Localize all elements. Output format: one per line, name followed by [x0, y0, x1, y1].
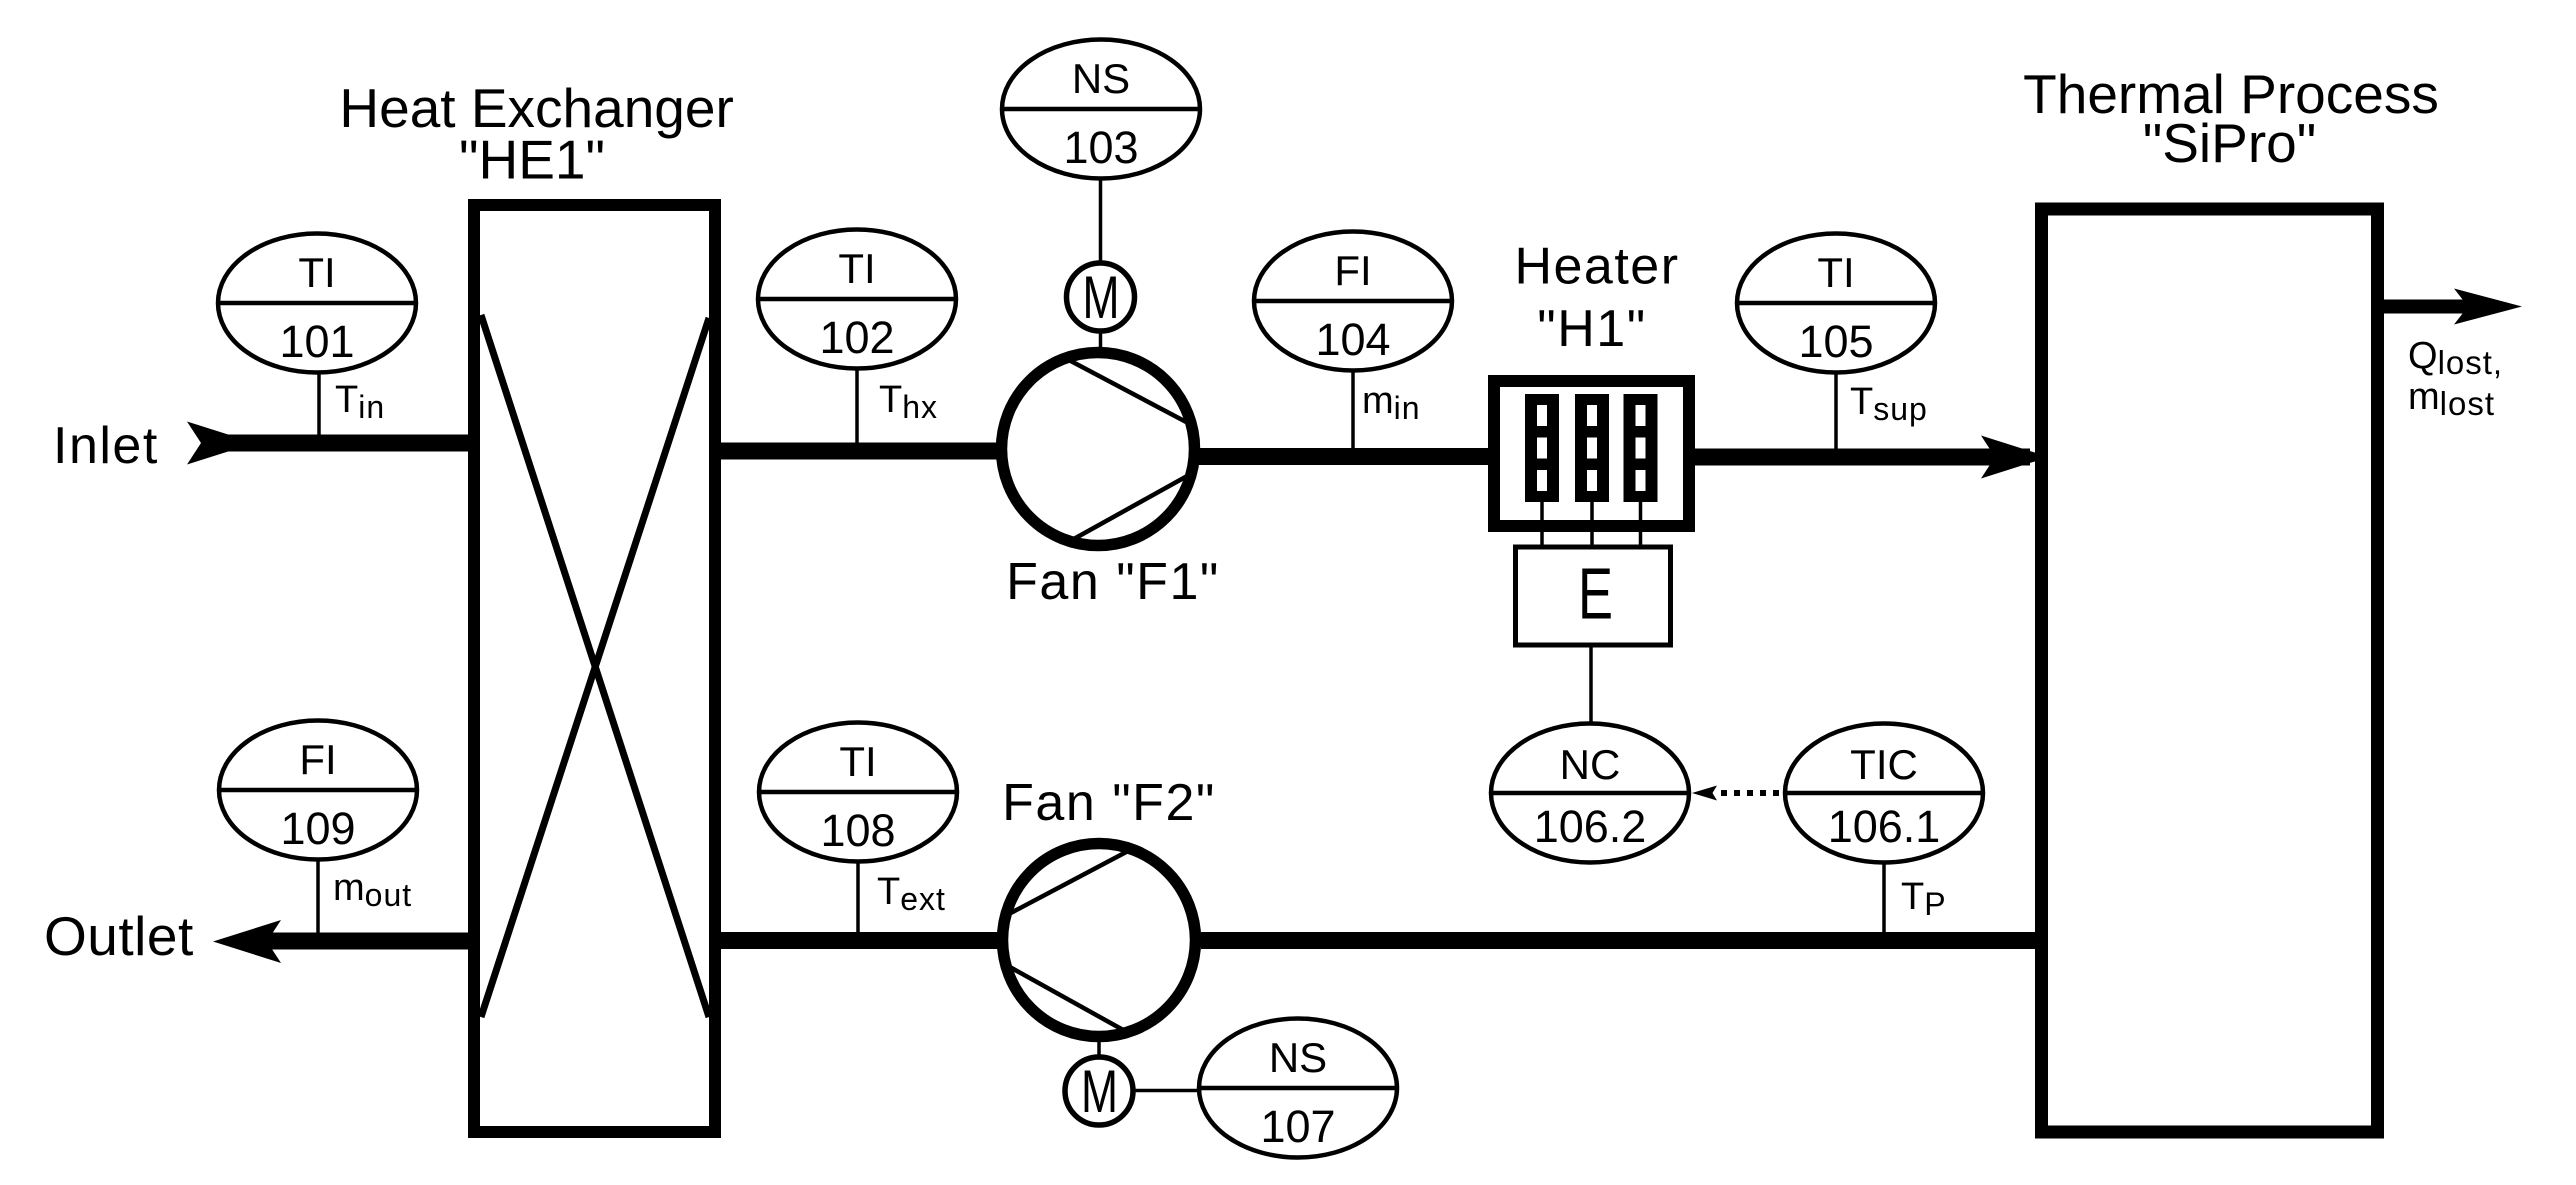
wire Thermal Process to Fan F2 (return)	[1201, 932, 2038, 949]
fan F1 blade lower	[1072, 475, 1189, 540]
wire E to NC106.2	[1589, 645, 1593, 722]
wire Fan F1 to Heater H1	[1197, 448, 1492, 465]
fan F2	[1003, 844, 1196, 1037]
heater element 2	[1575, 394, 1609, 502]
svg-text:103: 103	[1063, 122, 1138, 173]
svg-text:Fan "F1": Fan "F1"	[1006, 553, 1220, 611]
motor M2	[1065, 1057, 1133, 1125]
svg-text:105: 105	[1798, 316, 1873, 367]
svg-text:TI: TI	[838, 245, 875, 292]
wire M2 to NS107	[1133, 1089, 1199, 1093]
svg-text:106.2: 106.2	[1534, 801, 1647, 852]
svg-text:TI: TI	[1817, 249, 1854, 296]
tag line FI104	[1351, 371, 1355, 451]
instrument NC 106.2	[1491, 724, 1689, 863]
svg-text:"H1": "H1"	[1537, 300, 1646, 358]
instrument TIC 106.1	[1785, 724, 1983, 863]
svg-text:106.1: 106.1	[1828, 801, 1941, 852]
fan F1 blade upper	[1067, 359, 1190, 424]
heat exchanger diagonal 1	[481, 315, 709, 1017]
svg-text:104: 104	[1315, 314, 1390, 365]
svg-text:E: E	[1578, 555, 1613, 635]
instrument NS 103	[1002, 40, 1200, 179]
svg-text:109: 109	[280, 803, 355, 854]
Qlost arrowhead	[2454, 289, 2522, 325]
svg-text:101: 101	[279, 316, 354, 367]
svg-text:NS: NS	[1072, 55, 1130, 102]
tag line FI109	[316, 860, 320, 935]
tag line TIC106.1	[1882, 863, 1886, 935]
svg-text:TI: TI	[298, 249, 335, 296]
svg-text:Fan "F2": Fan "F2"	[1002, 774, 1216, 832]
instrument TI 102	[758, 230, 956, 369]
wire M1 to fan F1	[1099, 329, 1103, 350]
dotted signal TIC to NC arrowhead	[1692, 786, 1717, 801]
fan F2 blade upper	[1007, 850, 1130, 915]
svg-text:Heater: Heater	[1514, 238, 1679, 296]
E box	[1516, 547, 1671, 645]
wire inlet pipe	[222, 435, 471, 452]
instrument TI 101	[218, 234, 416, 373]
wire element 3 to E	[1639, 502, 1643, 546]
svg-text:M: M	[1081, 1058, 1118, 1125]
svg-text:TIC: TIC	[1850, 741, 1918, 788]
instrument TI 105	[1737, 234, 1935, 373]
fan F2 blade lower	[1008, 966, 1125, 1031]
svg-text:M: M	[1083, 264, 1120, 331]
wire M2 to fan F2	[1097, 1038, 1101, 1058]
wire NS103 to M1	[1099, 178, 1103, 265]
motor M1	[1067, 263, 1135, 331]
instrument FI 104	[1254, 232, 1452, 371]
wire element 1 to E	[1540, 502, 1544, 546]
wire element 2 to E	[1590, 502, 1594, 546]
heat exchanger HE1 body	[474, 205, 715, 1132]
instrument FI 109	[219, 721, 417, 860]
svg-text:"SiPro": "SiPro"	[2143, 112, 2317, 174]
svg-text:TI: TI	[839, 738, 876, 785]
outlet flow arrowhead	[213, 920, 281, 963]
thermal process SiPro body	[2042, 209, 2378, 1132]
instrument NS 107	[1199, 1019, 1397, 1158]
svg-text:"HE1": "HE1"	[459, 129, 605, 191]
instrument TI 108	[759, 723, 957, 862]
svg-text:Inlet: Inlet	[53, 417, 159, 475]
svg-text:107: 107	[1260, 1101, 1335, 1152]
wire Fan F2 to HE (return)	[716, 932, 1000, 949]
svg-text:NC: NC	[1560, 741, 1621, 788]
heater H1 body	[1494, 381, 1689, 526]
heater element 1	[1525, 394, 1559, 502]
wire outlet pipe	[258, 933, 471, 950]
heater element 3	[1624, 394, 1658, 502]
tag line TI108	[856, 862, 860, 935]
wire HE to Fan F1	[716, 443, 1000, 460]
tag line TI102	[855, 369, 859, 445]
svg-text:108: 108	[820, 805, 895, 856]
heat exchanger diagonal 2	[481, 318, 709, 1017]
supply flow arrowhead	[1981, 436, 2049, 479]
svg-text:Outlet: Outlet	[44, 905, 194, 967]
svg-text:FI: FI	[1334, 247, 1371, 294]
tag line TI101	[317, 373, 321, 437]
svg-text:NS: NS	[1269, 1034, 1327, 1081]
svg-text:102: 102	[819, 312, 894, 363]
wire Heater H1 to Thermal Process	[1692, 449, 2030, 466]
inlet flow arrowhead	[187, 422, 255, 465]
svg-text:FI: FI	[299, 736, 336, 783]
fan F1	[1002, 353, 1195, 546]
wire Qlost output arrow	[2384, 300, 2470, 314]
dotted signal line	[1721, 790, 1784, 796]
tag line TI105	[1834, 373, 1838, 451]
